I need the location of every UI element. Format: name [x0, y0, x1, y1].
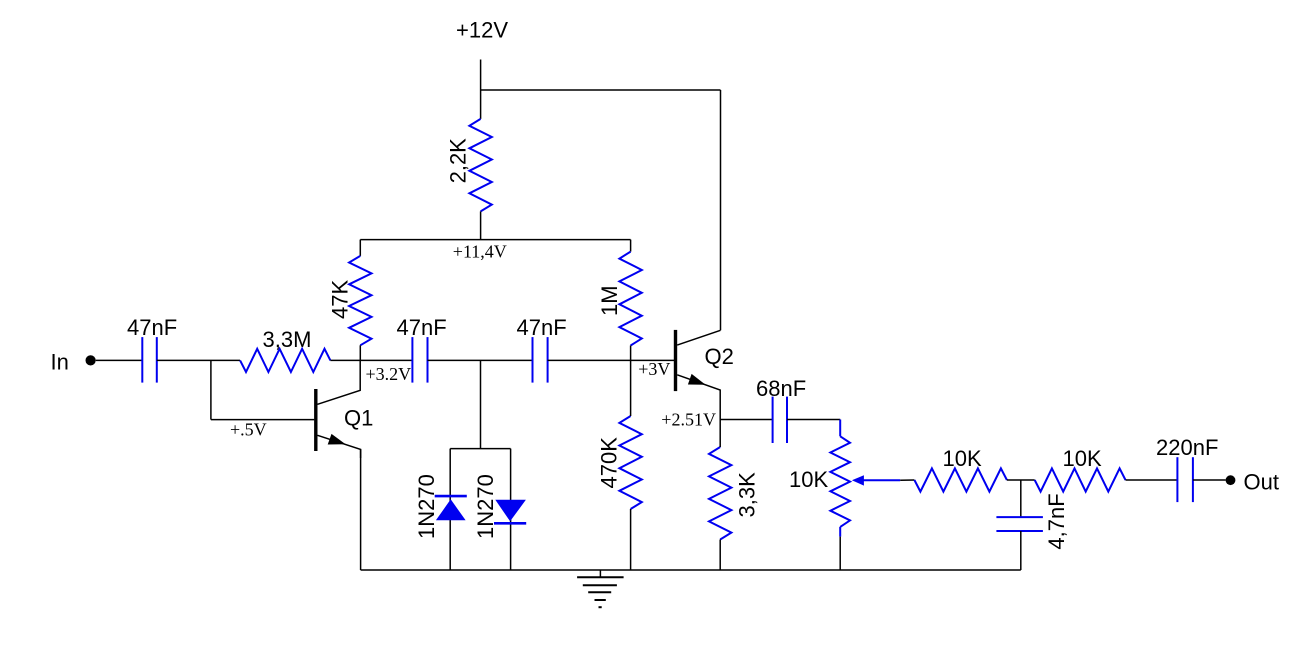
svg-text:10K: 10K: [789, 467, 828, 492]
wire 3,3K bottom lead: [719, 540, 721, 571]
wire 3,3M to C2: [330, 359, 412, 361]
capacitor 47nF C1: [142, 337, 157, 383]
label 4,7nF: [1044, 493, 1069, 549]
svg-text:1M: 1M: [597, 285, 622, 316]
node +2.51V label: [661, 409, 716, 429]
node +3.2V label: [366, 364, 412, 384]
label 3,3K: [734, 472, 759, 518]
wire R5 to C6: [1126, 479, 1178, 481]
label 10K pot: [789, 467, 828, 492]
wire top rail: [481, 89, 721, 91]
capacitor 47nF C3: [533, 337, 548, 383]
label 10K R5: [1063, 446, 1102, 471]
capacitor 220nF C6: [1177, 457, 1193, 502]
node +11,4V label: [453, 241, 507, 261]
diode D2 1N270: [494, 500, 526, 524]
resistor 10K R5: [1035, 468, 1126, 491]
label 2,2K: [445, 138, 470, 184]
svg-text:Out: Out: [1244, 470, 1279, 495]
wire Q1 emitter drop: [360, 449, 362, 570]
ground: [577, 570, 624, 607]
svg-text:1N270: 1N270: [473, 474, 498, 539]
wire C2 to C3: [428, 359, 533, 361]
wire bottom rail: [361, 569, 1021, 571]
wire 2,2K top lead: [480, 90, 482, 119]
label Out: [1244, 470, 1279, 495]
resistor 470K: [619, 416, 641, 509]
svg-text:47nF: 47nF: [397, 315, 447, 340]
capacitor 4,7nF C5: [996, 517, 1043, 531]
resistor 2,2K: [469, 119, 491, 211]
wire Q2 collector drop: [720, 90, 722, 330]
svg-text:In: In: [51, 349, 69, 374]
wire 470K top lead: [630, 360, 632, 416]
wire 47K bottom lead: [359, 345, 361, 360]
wire C5 bottom lead: [1020, 531, 1022, 570]
label 220nF: [1156, 435, 1218, 460]
svg-text:+2.51V: +2.51V: [661, 409, 716, 429]
svg-text:4,7nF: 4,7nF: [1044, 493, 1069, 549]
label 1M: [597, 285, 622, 316]
svg-text:+3.2V: +3.2V: [366, 364, 412, 384]
label 47nF C1: [127, 315, 177, 340]
wire pot wiper to R4: [900, 479, 914, 481]
wire C3 to Q2 base: [548, 359, 674, 361]
label 47nF C2: [397, 315, 447, 340]
label 1N270 D2: [473, 474, 498, 539]
node Out terminal: [1226, 475, 1236, 485]
svg-text:47nF: 47nF: [517, 315, 567, 340]
label 470K: [597, 437, 622, 489]
wire Q1 base wire: [211, 419, 314, 421]
label In: [51, 349, 69, 374]
transistor Q2: [676, 330, 721, 420]
potentiometer 10K: [830, 420, 900, 537]
svg-text:47nF: 47nF: [127, 315, 177, 340]
diode D1 1N270: [435, 496, 467, 520]
capacitor 47nF C2: [412, 337, 427, 383]
wire 3,3K top lead: [719, 420, 721, 448]
svg-text:3,3K: 3,3K: [734, 472, 759, 518]
svg-text:10K: 10K: [943, 446, 982, 471]
svg-text:10K: 10K: [1063, 446, 1102, 471]
wire diode D2 branch: [510, 449, 512, 570]
wire R4 to R5: [1007, 479, 1035, 481]
label 47nF C3: [517, 315, 567, 340]
wire diode top bar: [450, 448, 510, 450]
wire pot bottom lead: [839, 537, 841, 570]
node +12V label: [456, 18, 508, 43]
label Q2: [705, 344, 734, 369]
wire node A drop: [210, 360, 212, 419]
wire C6 to Out: [1193, 479, 1226, 481]
transistor Q1: [316, 360, 361, 458]
resistor 3,3K: [709, 447, 731, 540]
wire 1M bottom lead: [630, 346, 632, 361]
label 68nF: [756, 376, 806, 401]
node In terminal: [86, 355, 96, 365]
wire +11,4V rail: [360, 239, 630, 241]
label Q1: [344, 405, 373, 430]
svg-text:+12V: +12V: [456, 18, 508, 43]
wire node C drop: [480, 360, 482, 448]
resistor 3,3M: [240, 349, 330, 372]
svg-text:Q2: Q2: [705, 344, 734, 369]
wire +12V stub: [480, 60, 482, 91]
label 47K: [328, 280, 353, 319]
svg-text:+3V: +3V: [638, 359, 670, 379]
label 1N270 D1: [414, 474, 439, 539]
wire node F drop: [1020, 480, 1022, 517]
svg-text:68nF: 68nF: [756, 376, 806, 401]
svg-text:+.5V: +.5V: [230, 419, 267, 439]
wire Q2 emitter to C4: [720, 419, 772, 421]
wire C1 to R 3,3M: [157, 359, 240, 361]
label 3,3M: [263, 327, 312, 352]
wire In to C1: [96, 359, 143, 361]
svg-text:1N270: 1N270: [414, 474, 439, 539]
svg-text:470K: 470K: [597, 437, 622, 489]
capacitor 68nF C4: [773, 397, 787, 443]
wire 470K bottom lead: [630, 509, 632, 570]
wire C4 to pot: [787, 419, 840, 421]
label 10K R4: [943, 446, 982, 471]
resistor 47K: [349, 256, 371, 345]
wire diode D1 branch: [449, 449, 451, 570]
node +3V label: [638, 359, 670, 379]
resistor 1M: [619, 252, 641, 346]
wire 47K top lead: [359, 240, 361, 256]
wire 2,2K bottom lead: [480, 211, 482, 239]
svg-text:220nF: 220nF: [1156, 435, 1218, 460]
svg-text:47K: 47K: [328, 280, 353, 319]
svg-text:2,2K: 2,2K: [445, 138, 470, 184]
node +.5V label: [230, 419, 267, 439]
resistor 10K R4: [914, 468, 1007, 491]
svg-text:3,3M: 3,3M: [263, 327, 312, 352]
svg-text:Q1: Q1: [344, 405, 373, 430]
wire 1M top lead: [630, 240, 632, 252]
svg-text:+11,4V: +11,4V: [453, 241, 507, 261]
